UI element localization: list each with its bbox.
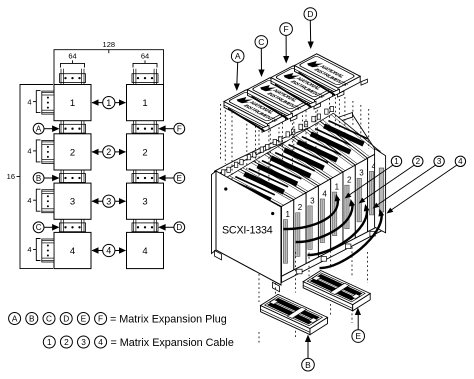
switch block 3 left column [54, 183, 91, 219]
svg-text:D: D [63, 314, 69, 324]
plug label E with arrow [357, 313, 359, 330]
module 2 front connector slot [345, 185, 349, 229]
module rear tab 7 [299, 122, 308, 130]
svg-text:E: E [355, 331, 361, 341]
module 2 top board [294, 129, 356, 172]
svg-text:4: 4 [70, 246, 75, 257]
chassis bottom rim [282, 223, 386, 283]
module 2 front connector slot [296, 213, 300, 256]
cable label 4 [103, 244, 115, 256]
cable label 3 [103, 195, 115, 207]
svg-text:1: 1 [335, 183, 340, 192]
plug label A [33, 123, 44, 134]
svg-text:E: E [81, 314, 87, 324]
svg-text:3: 3 [142, 197, 147, 208]
module 3 top board [254, 153, 319, 193]
svg-text:D: D [176, 223, 182, 232]
module 4 top board [320, 113, 380, 158]
svg-text:1: 1 [142, 98, 147, 109]
svg-text:3: 3 [81, 337, 86, 347]
dimension bracket 16 [20, 85, 53, 269]
svg-text:SCXI-1334: SCXI-1334 [222, 224, 273, 236]
svg-text:B: B [36, 174, 41, 183]
cable label 4 with arrow [391, 165, 457, 210]
plug label A with arrow [236, 62, 239, 86]
module 4 front panel [368, 151, 380, 232]
svg-text:F: F [283, 24, 288, 34]
svg-text:4: 4 [27, 97, 31, 106]
module 1 top board [227, 169, 294, 206]
module 4 top connector slot [271, 158, 311, 176]
svg-text:C: C [46, 314, 52, 324]
svg-text:4: 4 [142, 246, 147, 257]
cable label 1 with arrow [349, 165, 393, 195]
module 4 top connector slot [324, 126, 364, 144]
module 4 front connector slot [369, 171, 373, 215]
module 3 top board [307, 121, 368, 165]
dashed alignment lines bottom [258, 274, 260, 302]
module 3 top connector slot [311, 134, 351, 152]
chassis rear top rail [215, 113, 353, 176]
svg-text:= Matrix Expansion Plug: = Matrix Expansion Plug [110, 313, 227, 325]
expansion connector strip between blocks 3 and 4 right column [132, 223, 158, 232]
module 1 front panel [331, 172, 343, 251]
dimension bracket 64 [61, 63, 85, 67]
module rear tab 8 [312, 114, 321, 122]
svg-text:C: C [36, 223, 42, 232]
svg-text:2: 2 [347, 176, 352, 185]
svg-text:3: 3 [310, 196, 315, 205]
plug label D [174, 222, 185, 233]
svg-text:4: 4 [27, 245, 31, 254]
expansion connector strip between blocks 2 and 3 right column [132, 174, 158, 183]
chassis right side wall [375, 149, 386, 233]
svg-text:C: C [258, 37, 264, 47]
plug label F with arrow [285, 35, 287, 58]
svg-text:1: 1 [285, 210, 290, 219]
svg-text:2: 2 [142, 147, 147, 158]
module rear tab 2 [234, 160, 243, 168]
svg-text:16: 16 [7, 172, 15, 181]
module 2 front panel [343, 165, 355, 244]
switch block 3 right column [127, 183, 164, 219]
cable label 2 with arrow [363, 165, 415, 200]
module 4 top board [267, 145, 331, 186]
module 4 front connector slot [320, 199, 324, 243]
switch block 2 right column [127, 134, 164, 170]
matrix expansion plug D [295, 54, 368, 97]
svg-text:1: 1 [47, 337, 52, 347]
module 3 front connector slot [308, 206, 312, 250]
matrix expansion plug A [224, 90, 297, 133]
svg-text:3: 3 [106, 196, 111, 206]
svg-text:64: 64 [141, 52, 149, 61]
module 4 front panel [318, 179, 330, 257]
matrix expansion plug E (bottom) [303, 271, 370, 311]
4-line connector left of block 3 [42, 190, 54, 213]
svg-text:4: 4 [106, 246, 111, 256]
svg-text:A: A [36, 125, 42, 134]
expansion cable 2 arrow between columns [92, 151, 126, 153]
chassis feet [215, 251, 222, 260]
expansion cable 3 arrow between columns [92, 200, 126, 202]
module 1 front connector slot [283, 220, 287, 264]
svg-text:F: F [177, 125, 182, 134]
module 2 top board [240, 161, 306, 199]
svg-text:B: B [29, 314, 35, 324]
module rear tab 5 [273, 137, 282, 145]
svg-text:2: 2 [416, 157, 421, 166]
module 3 front panel [306, 186, 318, 264]
matrix expansion plug C [248, 78, 321, 121]
plug label C with arrow [260, 48, 262, 72]
switch block 1 right column [127, 85, 164, 121]
svg-text:D: D [307, 9, 313, 19]
matrix expansion plug F [271, 66, 344, 109]
svg-text:3: 3 [70, 197, 75, 208]
dashed alignment lines top [231, 112, 233, 181]
expansion connector strip between blocks 2 and 3 left column [60, 174, 86, 183]
plug label F [174, 123, 185, 134]
svg-text:= Matrix Expansion Cable: = Matrix Expansion Cable [111, 337, 234, 349]
expansion cable 4 arrow between columns [92, 250, 126, 252]
cable label 2 [103, 146, 115, 158]
dimension bracket 64 [133, 63, 157, 67]
top connector right column [132, 74, 158, 83]
plug label B [33, 173, 44, 184]
svg-text:1: 1 [70, 98, 75, 109]
switch block 4 right column [127, 232, 164, 268]
expansion connector strip between blocks 1 and 2 left column [60, 124, 86, 133]
module 1 front connector slot [333, 192, 337, 236]
svg-text:4: 4 [27, 147, 31, 156]
svg-text:A: A [235, 51, 241, 61]
svg-text:1: 1 [106, 98, 111, 108]
svg-text:3: 3 [437, 157, 442, 166]
svg-text:4: 4 [458, 157, 463, 166]
matrix expansion plug B (bottom) [261, 294, 328, 334]
switch block 1 left column [54, 85, 91, 121]
svg-text:2: 2 [298, 203, 303, 212]
cable label 1 [103, 97, 115, 109]
plug label E [174, 173, 185, 184]
svg-text:2: 2 [70, 147, 75, 158]
module 1 top board [280, 137, 343, 179]
svg-text:2: 2 [64, 337, 69, 347]
module 1 front panel [282, 200, 294, 277]
module 3 top connector slot [258, 166, 298, 184]
svg-text:3: 3 [359, 169, 364, 178]
module 2 top connector slot [298, 142, 338, 160]
svg-text:F: F [98, 314, 103, 324]
expansion connector strip between blocks 1 and 2 right column [132, 124, 158, 133]
module 1 top connector slot [231, 182, 271, 200]
module 2 front panel [294, 193, 306, 270]
module 1 top connector slot [284, 150, 324, 168]
plug label B with arrow [307, 340, 309, 358]
chassis side panel SCXI-1334 [212, 171, 217, 254]
svg-text:E: E [177, 174, 182, 183]
module rear tab 1 [222, 167, 231, 175]
svg-text:4: 4 [98, 337, 103, 347]
module 3 front panel [355, 158, 367, 238]
module rear tab 4 [260, 144, 269, 152]
switch block 4 left column [54, 232, 91, 268]
module rear tab 9 [325, 106, 334, 114]
legend: cable numbers [43, 336, 55, 348]
dimension bracket 128 [54, 50, 164, 85]
switch block 2 left column [54, 134, 91, 170]
plug label D with arrow [309, 20, 311, 44]
plug label C [33, 222, 44, 233]
4-line connector left of block 4 [42, 239, 54, 262]
4-line connector left of block 1 [42, 91, 54, 114]
svg-text:1: 1 [394, 157, 399, 166]
legend: plug letters [9, 313, 21, 325]
svg-text:4: 4 [27, 196, 31, 205]
svg-text:A: A [12, 314, 18, 324]
module rear tab 3 [247, 152, 256, 160]
cable label 3 with arrow [377, 165, 436, 205]
svg-text:128: 128 [103, 40, 116, 49]
top connector left column [60, 74, 86, 83]
4-line connector left of block 2 [42, 140, 54, 163]
module 2 top connector slot [244, 174, 283, 192]
module 3 front connector slot [357, 178, 361, 222]
expansion connector strip between blocks 3 and 4 left column [60, 223, 86, 232]
svg-text:4: 4 [322, 189, 327, 198]
svg-text:B: B [305, 360, 311, 370]
svg-text:2: 2 [106, 147, 111, 157]
module rear tab 6 [286, 129, 295, 137]
matrix expansion cables between modules [284, 198, 338, 230]
expansion cable 1 arrow between columns [92, 102, 126, 104]
svg-text:64: 64 [68, 52, 76, 61]
